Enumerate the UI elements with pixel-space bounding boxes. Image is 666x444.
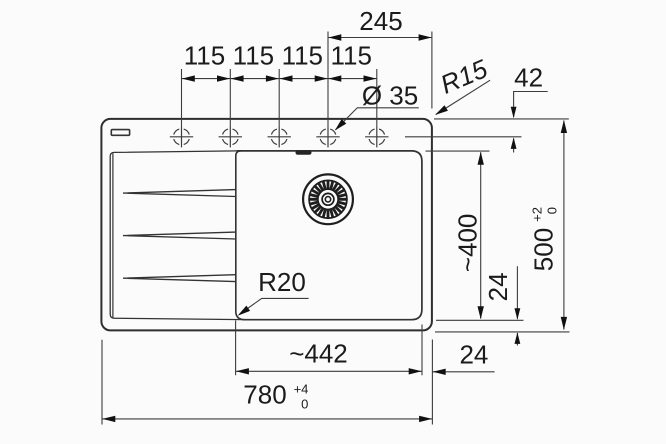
drainboard groove 3 bbox=[123, 275, 236, 282]
drainboard groove 1 bbox=[123, 190, 236, 197]
label R15 with leader bbox=[436, 80, 490, 114]
dimension 245 bbox=[328, 32, 432, 109]
logo plate bbox=[111, 130, 129, 136]
svg-text:~400: ~400 bbox=[453, 214, 483, 273]
faucet hole 2 bbox=[219, 126, 242, 147]
svg-text:115: 115 bbox=[233, 41, 274, 71]
svg-text:245: 245 bbox=[359, 6, 402, 36]
svg-text:+2: +2 bbox=[529, 207, 544, 222]
extension lines right side bbox=[435, 320, 570, 332]
overflow mark bbox=[296, 150, 312, 155]
dimension 42 bbox=[405, 92, 569, 153]
dimension chain 115x4 bbox=[182, 78, 377, 80]
dimension 780 +4/0 bbox=[102, 340, 432, 425]
svg-text:0: 0 bbox=[544, 207, 559, 214]
dimension 24 vertical bbox=[516, 266, 518, 345]
svg-text:0: 0 bbox=[301, 396, 308, 411]
dimension 500 +2/0 bbox=[563, 121, 565, 330]
drain strainer bbox=[303, 174, 353, 224]
faucet hole 5 bbox=[365, 126, 388, 147]
svg-text:+4: +4 bbox=[294, 382, 309, 397]
svg-text:~442: ~442 bbox=[289, 338, 348, 368]
svg-text:24: 24 bbox=[483, 272, 513, 301]
dimension 24 horizontal bbox=[432, 371, 494, 373]
extension lines above faucet holes bbox=[182, 32, 377, 127]
svg-text:500: 500 bbox=[529, 228, 559, 271]
bowl outline bbox=[237, 151, 422, 320]
drainboard outline bbox=[110, 151, 243, 320]
faucet hole 4 bbox=[316, 126, 339, 147]
dimension ~442 bbox=[236, 321, 422, 376]
drainboard groove 2 bbox=[123, 232, 236, 239]
svg-text:115: 115 bbox=[184, 41, 225, 71]
bowl left wall bbox=[236, 151, 244, 320]
svg-text:115: 115 bbox=[282, 41, 323, 71]
svg-text:Ø 35: Ø 35 bbox=[362, 80, 418, 110]
dimension ~400 bbox=[426, 151, 490, 318]
sink outer outline bbox=[101, 119, 432, 331]
svg-text:42: 42 bbox=[514, 63, 543, 93]
svg-text:24: 24 bbox=[459, 339, 488, 369]
drainboard inner edge line bbox=[112, 153, 114, 317]
svg-text:780: 780 bbox=[243, 379, 286, 409]
svg-text:115: 115 bbox=[330, 41, 371, 71]
svg-text:R20: R20 bbox=[258, 267, 306, 297]
faucet hole 3 bbox=[268, 126, 291, 147]
faucet hole 1 bbox=[170, 126, 193, 147]
